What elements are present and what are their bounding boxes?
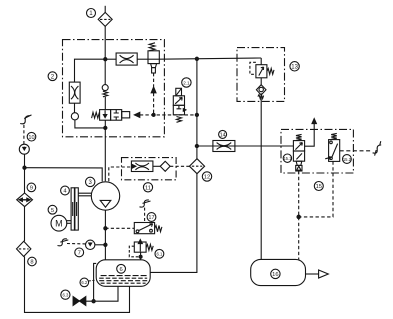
- node: junction dot right riser: [195, 57, 198, 60]
- node: junction dot riser/line to orifice 14: [195, 144, 198, 147]
- label circle 6.2: [80, 278, 89, 287]
- flow indicator 7 (circle with down arrow): [86, 240, 95, 249]
- wire filter 9 to filter 8: [24, 207, 26, 242]
- svg-text:6.2: 6.2: [81, 280, 87, 285]
- relief valve 6.1: [134, 240, 153, 253]
- coupling / bell housing 4 (two bars): [71, 188, 78, 230]
- label circle 3: [86, 177, 95, 186]
- motor shaft (double line): [66, 221, 71, 224]
- enclosure box 13 (dash-dot): [237, 48, 285, 102]
- pump shaft (double line): [78, 193, 91, 196]
- orifice / venturi (in box 2 top): [116, 53, 148, 65]
- svg-text:M: M: [55, 218, 63, 228]
- label circle 2.1: [182, 78, 191, 87]
- wire main line check to valve: [104, 97, 106, 110]
- outlet arrow (open triangle): [319, 270, 329, 278]
- unloader valve 15.1 (spring top): [293, 134, 304, 171]
- svg-text:8: 8: [30, 260, 33, 266]
- pressure relief valve (box 2 right, spring top): [148, 43, 159, 73]
- accumulator tank 16: [251, 259, 306, 285]
- label circle 10: [27, 132, 36, 141]
- wire to flow indicator 7: [95, 244, 106, 246]
- solenoid valve 2.1: [173, 88, 186, 122]
- svg-text:12: 12: [204, 175, 210, 181]
- label circle 15.2: [343, 155, 352, 164]
- wire tank bottom port to drain line: [86, 286, 118, 301]
- label circle 17: [147, 213, 156, 222]
- svg-text:17: 17: [148, 215, 154, 221]
- label circle 6.1: [155, 249, 164, 258]
- dashed electric line right with squiggle: [340, 150, 373, 152]
- filter 12 (diamond with dashed): [189, 159, 204, 174]
- squiggle break symbol (10): [20, 115, 31, 124]
- pressure switch 15.2 (spring top): [325, 133, 340, 161]
- motor 5 (M circle): [51, 215, 67, 231]
- svg-text:2.1: 2.1: [183, 80, 190, 85]
- svg-text:6.3: 6.3: [62, 293, 68, 298]
- label circle 6.3: [61, 290, 70, 299]
- pilot dashed bus to the right: [140, 114, 197, 116]
- check valve diamond (in box 11): [160, 161, 170, 171]
- wire riser below filter 12 down to tank 6 return: [150, 174, 197, 273]
- wire valve 15.1 outlet up with vent arrow: [305, 124, 315, 147]
- node: junction dot left loop / indicator 10: [23, 166, 26, 169]
- directional valve 2/2 (in box 2): [100, 110, 122, 121]
- svg-text:2: 2: [51, 73, 55, 80]
- wire flow control to check circle: [74, 103, 76, 113]
- suction line pump to tank 6: [104, 210, 106, 260]
- label circle 1: [87, 9, 96, 18]
- pump 3 (circle): [91, 182, 119, 210]
- svg-text:15.2: 15.2: [343, 157, 352, 162]
- label circle 11: [143, 183, 152, 192]
- label circle 12: [202, 172, 211, 181]
- wire filter 8 down, bottom bus to tank 6: [25, 257, 130, 313]
- filter 9 (diamond with arrows): [17, 193, 33, 207]
- wire: main pressure line exits box 2 to the right: [159, 58, 261, 59]
- dashed hose to squiggle (7): [67, 243, 86, 245]
- pilot arrow up (filled): [151, 87, 156, 93]
- svg-text:7: 7: [78, 251, 81, 257]
- wire left loop horizontal to pump: [25, 168, 103, 182]
- label circle 16: [271, 269, 280, 278]
- check ball circle below flow control: [71, 113, 78, 120]
- svg-text:15.1: 15.1: [283, 156, 292, 161]
- vent arrow up (filled): [312, 119, 316, 124]
- flow indicator 10 (circle with down arrow): [19, 144, 29, 154]
- wire valve 13 to check valve: [260, 78, 262, 85]
- drain dashed from valve 15.1: [298, 171, 300, 217]
- wire from box 13 down to accumulator 16: [260, 95, 262, 259]
- wire filter1 to box2 main line: [104, 26, 106, 84]
- svg-text:10: 10: [28, 135, 34, 141]
- pressure switch 17: [134, 223, 162, 234]
- svg-text:16: 16: [272, 272, 278, 278]
- drain dashed line pump top to box 11: [109, 167, 131, 181]
- squiggle break symbol (7): [58, 239, 69, 246]
- enclosure box 15 (dash-dot): [281, 129, 353, 173]
- wire indicator 10 riser: [24, 154, 26, 168]
- svg-text:6: 6: [119, 267, 122, 273]
- pressure valve 13 (box with spring right): [256, 65, 274, 78]
- check valve (diamond + ball) under valve 13: [256, 85, 266, 99]
- wire branch left from junction: [75, 59, 106, 82]
- svg-text:6.1: 6.1: [156, 252, 162, 257]
- label circle 8: [28, 257, 37, 266]
- label circle 15.1: [283, 154, 292, 162]
- svg-text:13: 13: [291, 65, 298, 71]
- pilot dashed line from relief valve down: [153, 73, 155, 87]
- dashed pilot line to pressure switch 17: [105, 227, 134, 229]
- inlet arrow into orifice 11 (filled): [131, 165, 136, 169]
- pilot dashed loop left of valve 13: [250, 62, 256, 74]
- svg-text:1: 1: [89, 10, 93, 17]
- enclosure box 2 (dash-dot): [63, 40, 165, 137]
- svg-text:11: 11: [145, 186, 151, 192]
- node: dashed drain junction dot: [297, 215, 300, 218]
- dashed electric line down to switch 17: [144, 208, 146, 223]
- wire orifice to check diamond: [153, 165, 160, 167]
- wire tank left port down to drain: [94, 263, 97, 301]
- wire main line valve to pump: [104, 120, 106, 181]
- svg-text:9: 9: [30, 186, 33, 192]
- label circle 5: [48, 205, 57, 214]
- filter 8 (diamond with dashed): [17, 241, 31, 256]
- svg-text:5: 5: [51, 208, 54, 214]
- enclosure box 11 (dash-dot): [122, 158, 177, 180]
- node: junction dot suction / switch 17: [104, 227, 107, 230]
- label circle 15: [314, 182, 323, 191]
- label circle 9: [27, 183, 36, 192]
- dashed pointer 6.2 to tank: [89, 280, 97, 281]
- node: junction dot pilot/riser: [195, 113, 198, 116]
- node: junction dot drain: [92, 300, 95, 303]
- node: pilot junction dot: [152, 113, 155, 116]
- dashed drain from 15.2 down and left: [299, 161, 333, 217]
- spring W left of directional valve: [92, 112, 100, 118]
- pilot dashed continues to pilot bus: [153, 93, 155, 115]
- squiggle break symbol (right): [373, 141, 382, 155]
- label circle 2: [48, 72, 57, 81]
- ball check valve on main line (circle + spring): [102, 85, 108, 97]
- orifice / venturi (in box 11): [131, 161, 153, 172]
- node: junction dot 6.1 drain: [139, 255, 142, 258]
- filter 1 (air breather diamond): [98, 12, 112, 26]
- wire into box 13 and corner down: [260, 58, 262, 65]
- wire left loop down to filter 9: [24, 168, 26, 193]
- wire accumulator outlet right: [306, 273, 319, 275]
- wire valve 6.1 to tank: [140, 252, 142, 260]
- dashed hose to squiggle (component 10): [23, 124, 25, 144]
- label circle 14: [219, 130, 227, 138]
- node: junction dot main line / branch line: [104, 58, 107, 61]
- air breather filter F1 stub wire: [104, 6, 106, 13]
- pilot arrow (filled, pointing left): [134, 112, 139, 117]
- orifice 14: [213, 141, 235, 152]
- squiggle break symbol (17): [140, 200, 151, 207]
- dashed drain continues to accumulator 16: [298, 217, 300, 260]
- wire line y=146 riser to valve 15.1: [197, 145, 294, 147]
- tank 6 (reservoir): [96, 260, 150, 287]
- flow control valve (in box 2): [69, 82, 80, 103]
- label circle 13: [290, 62, 299, 71]
- svg-text:15: 15: [316, 184, 322, 190]
- label circle 4: [61, 186, 70, 195]
- dashed line box 11 to filter 12: [170, 165, 190, 167]
- wire branch right from junction to orifice: [105, 58, 116, 60]
- pilot actuator box right of valve: [122, 112, 130, 118]
- node: junction dot box2 bottom: [104, 126, 107, 129]
- label circle 7: [75, 248, 84, 257]
- node: junction dot suction / level indicator 7: [104, 243, 107, 246]
- shutoff valve 6.3 (bowtie): [73, 297, 86, 306]
- svg-text:14: 14: [220, 133, 226, 139]
- dashed pilot loop 6.1: [129, 246, 139, 257]
- label circle 6: [117, 264, 126, 273]
- wire right riser (vertical through 2.1 area): [196, 59, 198, 159]
- wire check circle down and right to main line: [75, 120, 105, 128]
